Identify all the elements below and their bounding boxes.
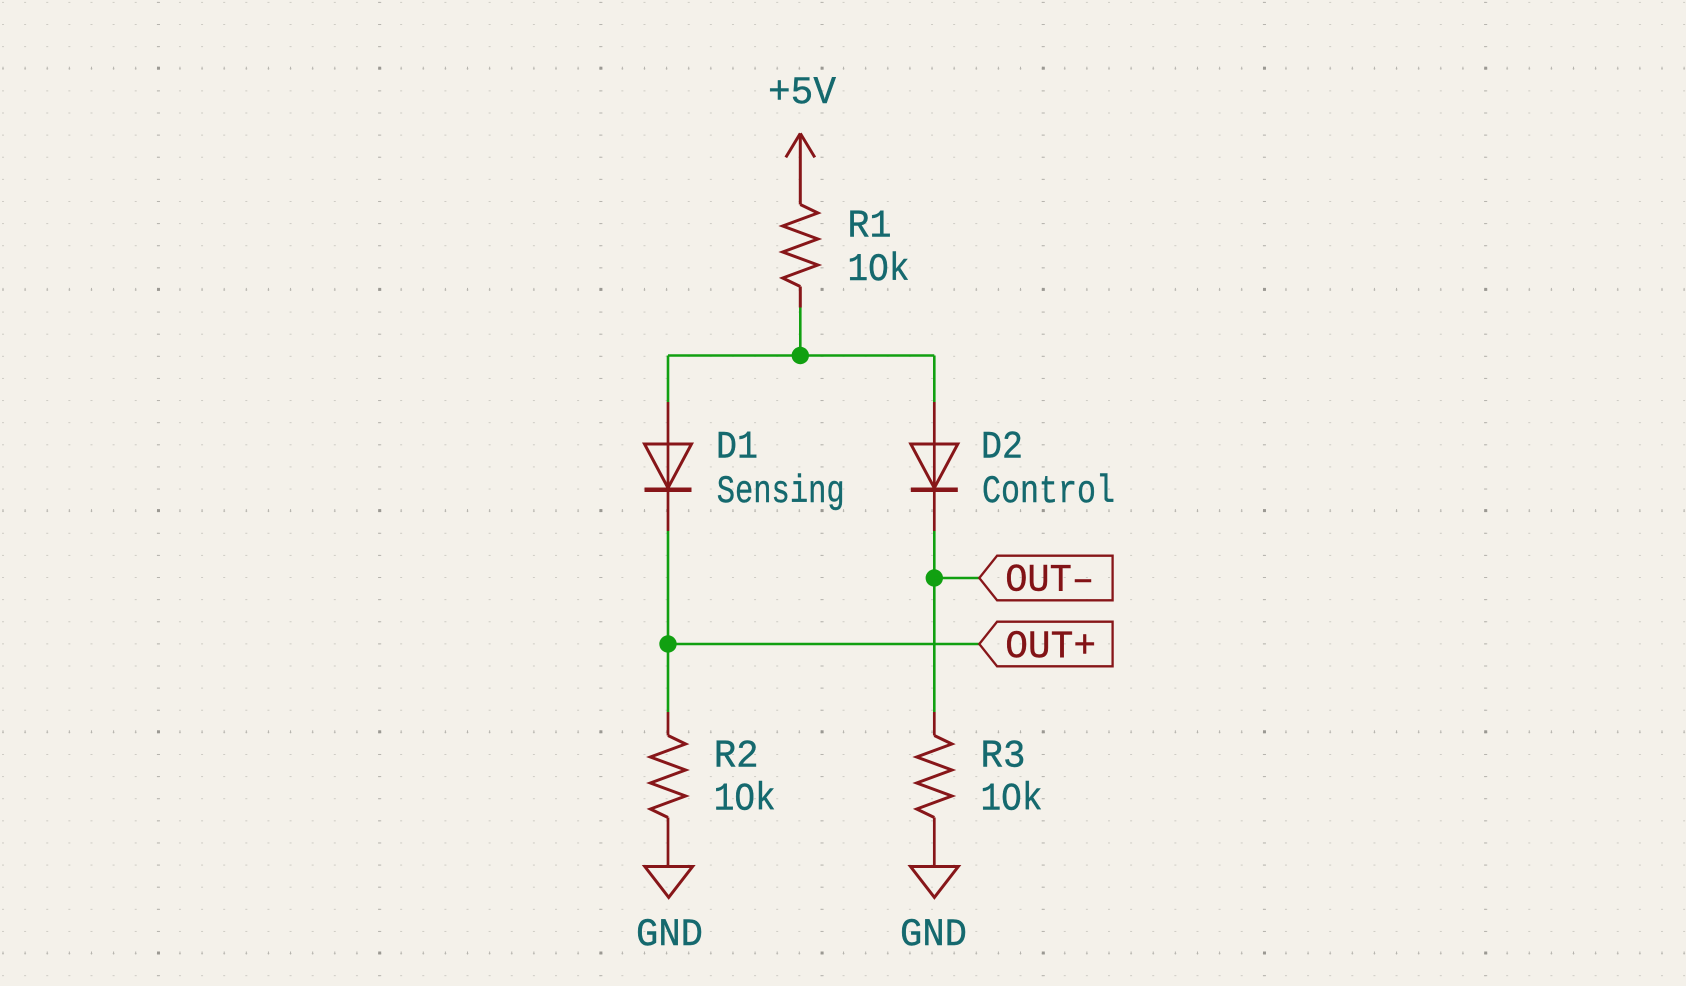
wire bus left drop xyxy=(667,356,670,403)
svg-text:1Ok: 1Ok xyxy=(714,778,776,822)
wire R1 to junction xyxy=(799,308,802,356)
svg-text:R3: R3 xyxy=(981,734,1026,778)
svg-text:+5V: +5V xyxy=(768,71,836,115)
diode D1 xyxy=(645,402,692,531)
svg-text:GND: GND xyxy=(900,913,967,957)
junction OUT+ xyxy=(659,635,676,652)
svg-text:Sensing: Sensing xyxy=(717,470,845,514)
svg-text:D1: D1 xyxy=(716,425,758,469)
power symbol +5V arrow xyxy=(786,133,815,204)
svg-text:GND: GND xyxy=(636,913,703,957)
svg-text:1Ok: 1Ok xyxy=(848,248,910,292)
resistor R2 xyxy=(650,712,685,867)
wire bus right drop xyxy=(933,356,936,403)
power symbol GND right xyxy=(911,867,959,898)
svg-text:D2: D2 xyxy=(981,425,1023,469)
hierarchical label OUT- xyxy=(979,556,1112,601)
resistor R3 xyxy=(917,712,952,867)
wire to OUT- xyxy=(934,577,979,580)
junction top xyxy=(792,347,809,364)
svg-text:Control: Control xyxy=(982,470,1115,514)
svg-text:R2: R2 xyxy=(714,734,759,778)
svg-text:OUT+: OUT+ xyxy=(1005,625,1096,669)
diode D2 xyxy=(911,402,958,531)
svg-text:R1: R1 xyxy=(848,204,892,248)
wire to OUT+ xyxy=(668,643,979,646)
power symbol GND left xyxy=(645,867,693,898)
resistor R1 xyxy=(783,205,818,287)
wire D2 down xyxy=(933,531,936,712)
wire bus horizontal xyxy=(668,354,934,357)
wire D1 down xyxy=(667,531,670,712)
svg-text:OUT–: OUT– xyxy=(1005,558,1094,602)
junction OUT- xyxy=(926,569,943,586)
hierarchical label OUT+ xyxy=(979,622,1112,667)
svg-text:1Ok: 1Ok xyxy=(981,778,1043,822)
